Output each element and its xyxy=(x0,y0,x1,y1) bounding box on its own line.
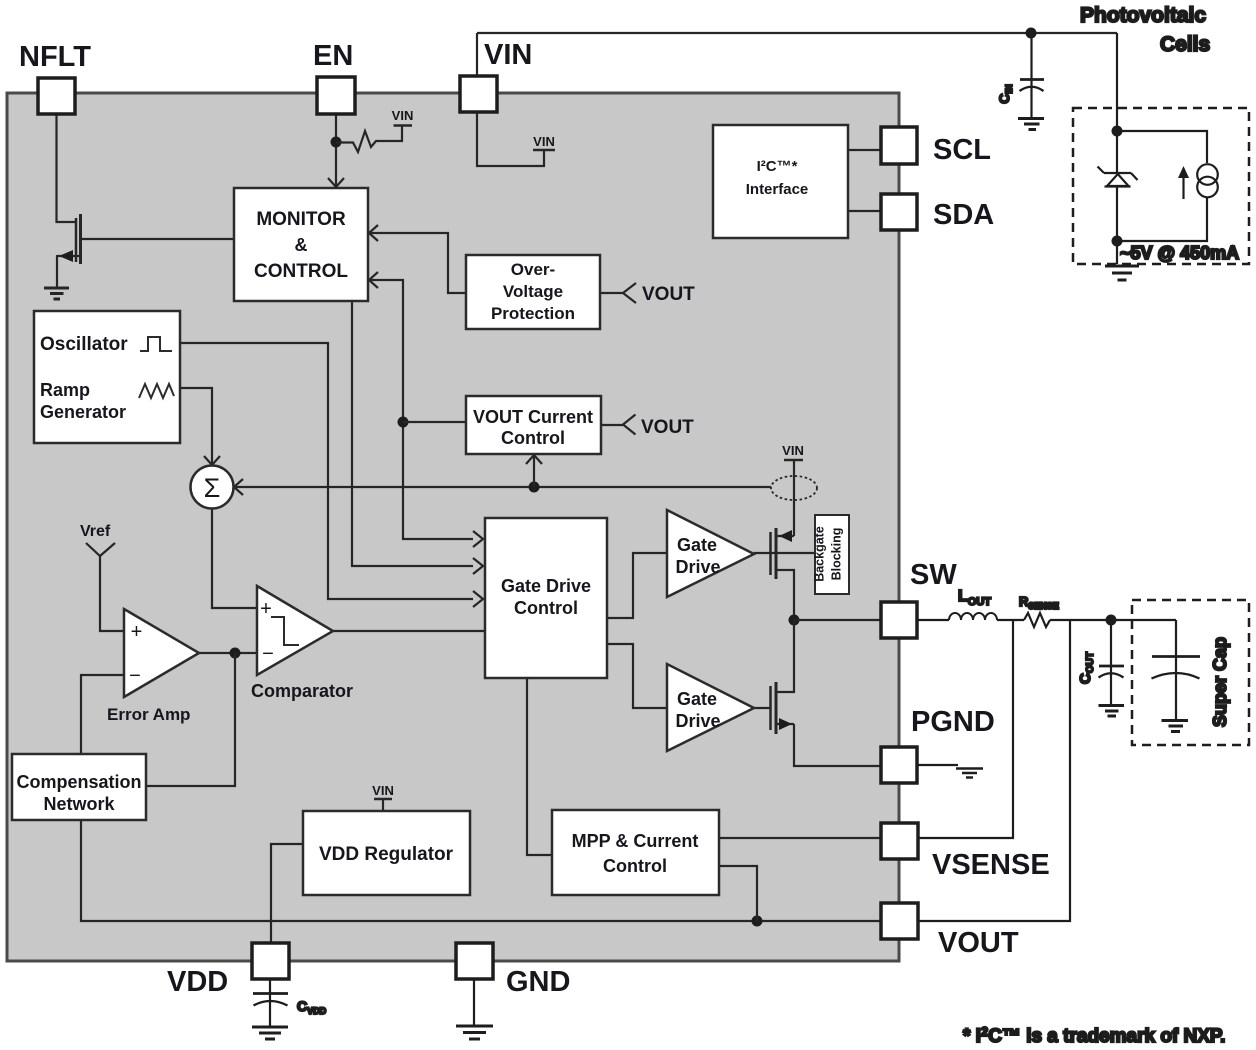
pin SDA xyxy=(881,194,917,230)
wire error amp output to comparator minus input xyxy=(199,652,257,654)
label GND xyxy=(506,966,570,998)
label Photovoltaic Cells xyxy=(1080,4,1210,56)
node error amp output junction xyxy=(230,648,241,659)
pin VOUT xyxy=(881,903,918,939)
wire junction down to compensation network xyxy=(146,653,235,786)
block VDD Regulator xyxy=(303,811,470,895)
wire GDC bottom to MPP block xyxy=(527,678,552,855)
svg-text:GND: GND xyxy=(506,966,570,998)
label Vref xyxy=(80,523,111,540)
svg-text:Σ: Σ xyxy=(204,473,221,503)
block Gate Drive Control xyxy=(485,518,607,678)
label VOUT (current control sense) xyxy=(641,417,694,438)
resistor RSENSE xyxy=(1024,613,1050,627)
wire VIN stub down through current sense ellipse to PMOS xyxy=(793,461,795,536)
svg-text:CONTROL: CONTROL xyxy=(254,261,348,282)
wire error amp minus input from compensation network xyxy=(81,675,124,754)
transistor Q3 (NMOS synchronous switch) xyxy=(771,682,882,766)
wire PGND to ground xyxy=(917,764,958,766)
svg-text:&: & xyxy=(295,235,308,255)
wire MPP to VSENSE pin xyxy=(719,837,881,839)
label VIN (internal stub) xyxy=(533,134,555,149)
wire GND pin to ground xyxy=(473,979,475,1025)
ground (PV) xyxy=(1105,266,1139,280)
svg-text:Oscillator: Oscillator xyxy=(40,334,128,355)
capacitor CVDD xyxy=(253,979,288,1026)
wire GDC to lower gate drive xyxy=(607,644,667,708)
pin EN xyxy=(317,77,355,114)
svg-text:~5V @ 450mA: ~5V @ 450mA xyxy=(1120,243,1239,263)
label SW xyxy=(910,559,957,591)
node Vref xyxy=(86,543,124,631)
svg-text:VDD: VDD xyxy=(167,966,228,998)
footnote I2C trademark xyxy=(963,1024,1225,1047)
svg-text:SW: SW xyxy=(910,559,957,591)
label ~5V @ 450mA xyxy=(1120,243,1239,263)
wire PV internal top xyxy=(1117,131,1207,163)
wire EN pin down to Monitor block with arrow xyxy=(328,114,344,187)
svg-text:VDD Regulator: VDD Regulator xyxy=(319,844,454,865)
ground (CIN) xyxy=(1018,119,1044,130)
svg-text:+: + xyxy=(131,621,143,643)
svg-text:VOUT: VOUT xyxy=(642,284,695,305)
node top rail junction xyxy=(1026,28,1037,39)
summer sigma xyxy=(191,466,234,509)
pin VDD xyxy=(252,943,289,979)
svg-text:Over-: Over- xyxy=(511,260,555,279)
wire I2C to SDA pin xyxy=(848,210,881,212)
svg-text:Interface: Interface xyxy=(746,181,809,198)
wire PV internal bottom xyxy=(1117,197,1207,241)
pin SW xyxy=(881,602,917,638)
capacitor CIN xyxy=(1020,33,1045,117)
node PV bottom junction xyxy=(1112,236,1123,247)
wire top rail to photovoltaic input xyxy=(477,32,1117,34)
svg-text:Comparator: Comparator xyxy=(251,681,353,701)
svg-text:I²C™*: I²C™* xyxy=(757,158,798,175)
block Compensation Network xyxy=(12,754,146,820)
amplifier Gate Drive (upper) xyxy=(667,510,754,597)
pin PGND xyxy=(881,747,917,783)
svg-text:VOUT: VOUT xyxy=(938,927,1019,959)
wire SW node down to NMOS drain xyxy=(776,620,794,692)
svg-text:+: + xyxy=(260,598,272,620)
svg-text:Gate: Gate xyxy=(677,535,717,555)
wire Monitor bottom to Gate Drive Control arrow 2 xyxy=(352,301,483,574)
ground (CVDD) xyxy=(252,1027,288,1039)
wire VIN pin up to top rail xyxy=(476,33,478,76)
svg-text:Network: Network xyxy=(43,794,115,814)
amplifier Gate Drive (lower) xyxy=(667,664,754,751)
block VOUT Current Control xyxy=(466,396,601,454)
wire MPP to VOUT rail xyxy=(719,866,757,921)
node VIN stub (power stage) xyxy=(784,459,803,462)
node EN junction xyxy=(331,137,342,148)
wire VDD regulator to VDD pin xyxy=(271,844,303,943)
label RSENSE xyxy=(1019,594,1059,611)
svg-text:VIN: VIN xyxy=(533,134,555,149)
node COUT junction xyxy=(1106,615,1117,626)
svg-text:Error Amp: Error Amp xyxy=(107,705,190,724)
wire upper gate drive to PMOS gate xyxy=(754,552,815,554)
ground (PGND) xyxy=(956,769,983,778)
block MPP & Current Control xyxy=(552,810,719,895)
pin GND xyxy=(456,943,493,979)
svg-text:* I2C™ is a trademark of NXP.: * I2C™ is a trademark of NXP. xyxy=(963,1024,1225,1047)
label VIN (power stage stub) xyxy=(782,443,804,458)
label VIN (EN pull-up stub) xyxy=(392,108,414,123)
block Monitor & Control xyxy=(234,188,368,301)
label COUT xyxy=(1077,652,1096,684)
svg-text:Gate Drive: Gate Drive xyxy=(501,576,591,596)
pin NFLT xyxy=(38,78,75,114)
label VSENSE xyxy=(932,849,1050,881)
svg-text:VOUT Current: VOUT Current xyxy=(473,407,593,427)
svg-text:Generator: Generator xyxy=(40,402,126,422)
wire feedback to Monitor second arrow xyxy=(368,272,483,547)
svg-text:−: − xyxy=(262,643,274,665)
ground (NFLT source) xyxy=(44,288,69,299)
label VOUT (OVP sense) xyxy=(642,284,695,305)
svg-text:Backgate: Backgate xyxy=(813,526,827,582)
svg-text:NFLT: NFLT xyxy=(19,41,91,73)
svg-text:VIN: VIN xyxy=(372,783,394,798)
wire VOUT CC sense from VOUT xyxy=(601,415,636,435)
op-amp Error Amp xyxy=(107,609,199,724)
svg-text:Super Cap: Super Cap xyxy=(1210,637,1230,727)
svg-text:VIN: VIN xyxy=(392,108,414,123)
wire VSENSE drop xyxy=(918,620,1013,838)
svg-text:Ramp: Ramp xyxy=(40,380,90,400)
wire comparator output to Gate Drive Control xyxy=(333,630,485,632)
svg-text:Gate: Gate xyxy=(677,689,717,709)
inductor LOUT xyxy=(949,613,997,620)
resistor pull-up EN to VIN xyxy=(336,126,402,152)
current source I1 xyxy=(1178,164,1218,199)
wire zener to bottom node xyxy=(1116,186,1118,264)
wire lower gate drive to NMOS gate xyxy=(754,707,771,709)
label CVDD xyxy=(297,998,327,1016)
svg-text:−: − xyxy=(129,665,141,687)
svg-text:Vref: Vref xyxy=(80,523,111,540)
svg-text:SCL: SCL xyxy=(933,134,991,166)
node SW junction xyxy=(789,615,800,626)
svg-text:Voltage: Voltage xyxy=(503,282,563,301)
wire inductor to Rsense xyxy=(997,619,1024,621)
ground (COUT) xyxy=(1099,706,1125,717)
svg-text:Control: Control xyxy=(501,428,565,448)
block I2C Interface xyxy=(713,125,848,238)
svg-text:VOUT: VOUT xyxy=(641,417,694,438)
capacitor COUT xyxy=(1099,620,1125,704)
ground (Super Cap) xyxy=(1162,721,1189,732)
label VDD xyxy=(167,966,228,998)
svg-text:Blocking: Blocking xyxy=(830,528,844,581)
label SCL xyxy=(933,134,991,166)
label VIN (VDD regulator stub) xyxy=(372,783,394,798)
node VOUT rail junction xyxy=(752,916,763,927)
svg-text:Drive: Drive xyxy=(675,711,720,731)
diode zener (PV model) xyxy=(1098,167,1138,187)
wire GDC to upper gate drive xyxy=(607,553,667,618)
block Backgate Blocking xyxy=(813,515,850,594)
transistor Q2 (PMOS pass switch) xyxy=(771,528,795,620)
node feedback to VOUT current control xyxy=(398,417,467,428)
svg-text:Protection: Protection xyxy=(491,304,575,323)
dashed box Super Cap xyxy=(1132,600,1249,745)
wire Rsense to supercap xyxy=(1050,619,1176,621)
IC body xyxy=(7,93,899,961)
wire VOUT drop xyxy=(918,620,1070,921)
svg-text:VSENSE: VSENSE xyxy=(932,849,1050,881)
wire SW node to SW pin xyxy=(794,619,881,621)
node VIN stub (VDD regulator) xyxy=(374,799,392,811)
svg-text:PGND: PGND xyxy=(911,706,995,738)
op-amp Comparator xyxy=(251,586,353,701)
current sense ellipse xyxy=(771,476,817,500)
wire branch up to VOUT Current Control arrow xyxy=(526,455,542,487)
label CIN xyxy=(996,84,1014,103)
capacitor Super Cap xyxy=(1152,620,1201,719)
block Over-Voltage Protection xyxy=(466,255,600,329)
wire VIN pin to internal VIN stub xyxy=(477,112,544,166)
svg-text:SDA: SDA xyxy=(933,199,994,231)
label SDA xyxy=(933,199,994,231)
wire photovoltaic feed down xyxy=(1116,33,1118,174)
label Super Cap xyxy=(1210,637,1230,727)
wire current sense to summer with arrow xyxy=(234,479,771,495)
wire OVP sense from VOUT xyxy=(600,283,636,303)
dashed box photovoltaic cell model xyxy=(1073,108,1249,264)
label VOUT xyxy=(938,927,1019,959)
label NFLT xyxy=(19,41,91,73)
label EN xyxy=(313,40,353,72)
wire summer output to comparator plus input xyxy=(212,508,257,608)
svg-text:EN: EN xyxy=(313,40,353,72)
svg-text:Photovoltaic: Photovoltaic xyxy=(1080,4,1206,27)
svg-text:Control: Control xyxy=(603,856,667,876)
wire Oscillator output to Gate Drive Control arrow 3 xyxy=(180,343,483,607)
svg-text:MONITOR: MONITOR xyxy=(256,209,346,230)
transistor Q1 (NFLT open-drain) xyxy=(57,214,234,287)
svg-text:VIN: VIN xyxy=(484,39,532,71)
node current sense branch xyxy=(529,482,540,493)
svg-text:Compensation: Compensation xyxy=(16,772,141,792)
svg-text:Control: Control xyxy=(514,598,578,618)
wire I2C to SCL pin xyxy=(848,149,881,151)
node VIN stub (EN pull-up) xyxy=(394,124,413,127)
pin SCL xyxy=(881,127,917,164)
wire NFLT pin to transistor gate xyxy=(57,114,76,222)
wire compensation network to VOUT rail xyxy=(81,820,881,921)
wire SW pin to inductor xyxy=(917,619,949,621)
block Oscillator / Ramp Generator xyxy=(34,311,180,443)
pin VSENSE xyxy=(881,823,918,859)
svg-text:MPP & Current: MPP & Current xyxy=(572,831,699,851)
svg-text:Drive: Drive xyxy=(675,557,720,577)
svg-text:Cells: Cells xyxy=(1160,33,1210,56)
wire OVP output to Monitor input arrow xyxy=(369,225,466,293)
svg-text:VIN: VIN xyxy=(782,443,804,458)
label LOUT xyxy=(958,588,991,608)
node VIN stub (internal) xyxy=(533,149,555,152)
label PGND xyxy=(911,706,995,738)
pin VIN xyxy=(460,76,497,112)
label VIN xyxy=(484,39,532,71)
ground (GND) xyxy=(456,1026,493,1039)
wire Ramp Generator to summer xyxy=(180,388,220,465)
node PV top junction xyxy=(1112,126,1123,137)
